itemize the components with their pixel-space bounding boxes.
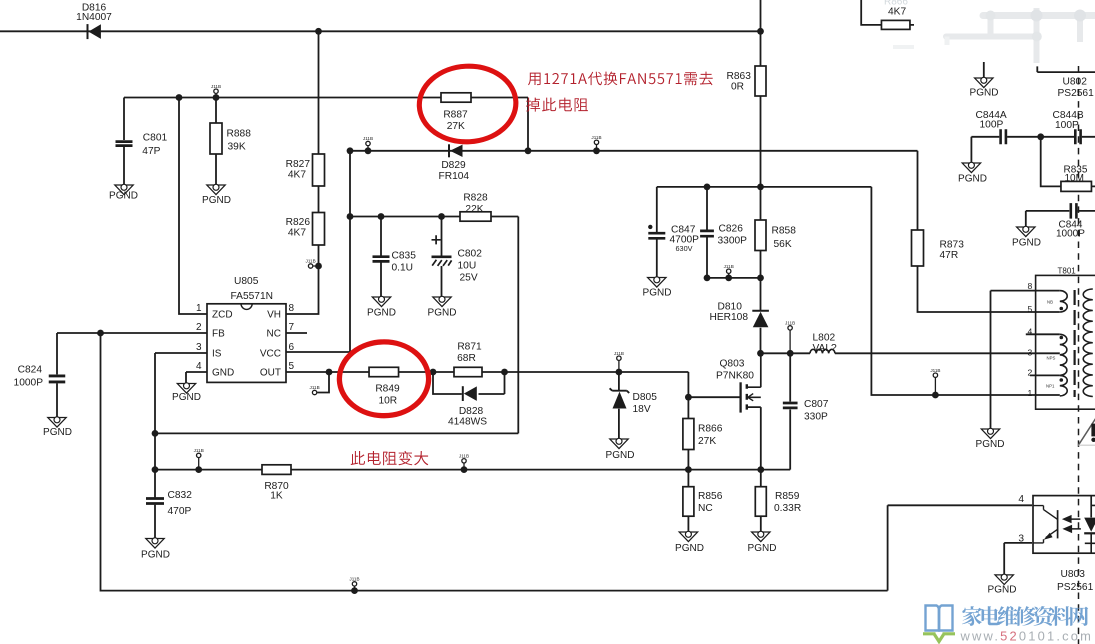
svg-text:PGND: PGND: [606, 450, 635, 461]
svg-text:J11B: J11B: [310, 385, 320, 390]
svg-text:C807: C807: [804, 399, 829, 410]
svg-text:R866: R866: [698, 424, 723, 435]
svg-text:100P: 100P: [1055, 120, 1079, 131]
svg-text:NPS: NPS: [1047, 356, 1056, 361]
svg-text:C826: C826: [719, 224, 744, 235]
svg-text:PGND: PGND: [367, 308, 396, 319]
svg-text:U805: U805: [234, 276, 259, 287]
svg-text:C802: C802: [458, 249, 483, 260]
svg-text:NB: NB: [1047, 300, 1053, 305]
svg-text:5: 5: [1028, 304, 1033, 314]
svg-text:D828: D828: [459, 406, 484, 417]
svg-text:J11B: J11B: [363, 136, 373, 141]
svg-text:47R: 47R: [940, 250, 959, 261]
svg-text:OUT: OUT: [260, 367, 281, 378]
svg-text:PS2561: PS2561: [1057, 582, 1094, 593]
svg-text:PGND: PGND: [172, 392, 201, 403]
svg-text:J11B: J11B: [306, 259, 316, 264]
svg-text:10U: 10U: [458, 261, 477, 272]
svg-text:R863: R863: [727, 71, 752, 82]
svg-text:IS: IS: [212, 348, 222, 359]
svg-text:3: 3: [1028, 348, 1033, 358]
svg-text:5: 5: [289, 361, 295, 372]
svg-text:1000P: 1000P: [14, 378, 44, 389]
svg-text:C832: C832: [168, 490, 193, 501]
svg-text:R828: R828: [463, 193, 488, 204]
svg-text:D805: D805: [633, 392, 658, 403]
svg-text:J11B: J11B: [930, 368, 940, 373]
svg-text:2: 2: [1028, 368, 1033, 378]
svg-text:4: 4: [196, 361, 202, 372]
svg-text:630V: 630V: [676, 244, 693, 253]
svg-text:PGND: PGND: [428, 308, 457, 319]
svg-text:39K: 39K: [228, 141, 246, 152]
svg-text:22K: 22K: [465, 204, 483, 215]
svg-text:C824: C824: [18, 365, 43, 376]
svg-text:J11B: J11B: [459, 453, 469, 458]
svg-text:PGND: PGND: [976, 439, 1005, 450]
svg-text:8: 8: [289, 303, 295, 314]
svg-text:FB: FB: [212, 328, 225, 339]
svg-text:VAL?: VAL?: [813, 343, 837, 354]
svg-text:U802: U802: [1063, 77, 1088, 88]
svg-text:GND: GND: [212, 367, 234, 378]
svg-text:PGND: PGND: [202, 195, 231, 206]
svg-text:J11B: J11B: [614, 351, 624, 356]
svg-text:R858: R858: [772, 226, 797, 237]
svg-text:PS2561: PS2561: [1058, 88, 1095, 99]
svg-text:D810: D810: [718, 301, 743, 312]
svg-text:56K: 56K: [774, 239, 792, 250]
svg-text:4: 4: [1028, 327, 1033, 337]
svg-text:NC: NC: [698, 503, 713, 514]
svg-text:www.520101.com: www.520101.com: [960, 629, 1094, 644]
svg-text:4: 4: [1018, 494, 1024, 505]
svg-text:Q803: Q803: [720, 358, 745, 369]
svg-text:6: 6: [289, 342, 295, 353]
svg-text:1K: 1K: [270, 491, 283, 502]
svg-text:1: 1: [1028, 388, 1033, 398]
svg-text:NP1: NP1: [1046, 384, 1055, 389]
svg-text:PGND: PGND: [141, 549, 170, 560]
svg-text:J11B: J11B: [349, 577, 359, 582]
svg-text:NC: NC: [267, 328, 281, 339]
svg-text:T801: T801: [1058, 267, 1077, 276]
svg-text:FA5571N: FA5571N: [231, 291, 273, 302]
svg-text:470P: 470P: [168, 506, 192, 517]
svg-text:1000P: 1000P: [1056, 229, 1085, 240]
svg-text:1: 1: [196, 303, 202, 314]
svg-text:J11B: J11B: [724, 264, 734, 269]
svg-text:R887: R887: [443, 110, 468, 121]
svg-text:J11B: J11B: [785, 321, 795, 326]
svg-text:J11B: J11B: [591, 135, 601, 140]
svg-text:L802: L802: [813, 333, 836, 344]
svg-text:ZCD: ZCD: [212, 309, 233, 320]
svg-text:27K: 27K: [698, 436, 716, 447]
svg-text:HER108: HER108: [710, 312, 749, 323]
svg-text:PGND: PGND: [643, 288, 672, 299]
svg-text:330P: 330P: [804, 411, 828, 422]
svg-text:0.33R: 0.33R: [774, 503, 801, 514]
svg-text:PGND: PGND: [1012, 237, 1041, 248]
svg-text:4K7: 4K7: [288, 228, 306, 239]
svg-text:R888: R888: [227, 128, 252, 139]
svg-text:18V: 18V: [633, 404, 651, 415]
svg-text:4K7: 4K7: [288, 169, 306, 180]
svg-text:J11B: J11B: [194, 448, 204, 453]
svg-text:PGND: PGND: [675, 543, 704, 554]
svg-text:PGND: PGND: [109, 191, 138, 202]
svg-text:PGND: PGND: [43, 427, 72, 438]
svg-text:R849: R849: [375, 384, 400, 395]
svg-text:0R: 0R: [731, 82, 744, 93]
svg-text:R871: R871: [457, 342, 482, 353]
svg-text:VH: VH: [267, 309, 281, 320]
svg-text:PGND: PGND: [970, 87, 999, 98]
svg-text:P7NK80: P7NK80: [716, 371, 754, 382]
svg-text:100P: 100P: [980, 120, 1004, 131]
svg-text:PGND: PGND: [748, 543, 777, 554]
svg-text:4148WS: 4148WS: [448, 417, 487, 428]
svg-text:C835: C835: [392, 251, 417, 262]
svg-text:PGND: PGND: [958, 173, 987, 184]
svg-text:R856: R856: [698, 491, 723, 502]
svg-text:3: 3: [196, 342, 202, 353]
svg-text:D829: D829: [441, 160, 466, 171]
svg-text:25V: 25V: [460, 273, 478, 284]
svg-text:R859: R859: [775, 491, 800, 502]
svg-text:10R: 10R: [378, 396, 397, 407]
svg-text:2: 2: [196, 322, 202, 333]
svg-text:0.1U: 0.1U: [392, 263, 414, 274]
svg-text:1N4007: 1N4007: [76, 12, 112, 23]
svg-text:8: 8: [1028, 281, 1033, 291]
svg-text:7: 7: [289, 322, 295, 333]
svg-text:PGND: PGND: [988, 584, 1017, 595]
svg-text:3: 3: [1018, 534, 1024, 545]
svg-text:VCC: VCC: [260, 348, 281, 359]
svg-text:27K: 27K: [447, 121, 465, 132]
svg-text:68R: 68R: [457, 353, 476, 364]
svg-text:4K7: 4K7: [888, 7, 906, 18]
svg-text:J11B: J11B: [211, 84, 221, 89]
svg-text:U803: U803: [1061, 569, 1086, 580]
svg-text:10M: 10M: [1065, 173, 1084, 184]
svg-text:FR104: FR104: [439, 171, 470, 182]
svg-text:R826: R826: [286, 217, 311, 228]
svg-text:3300P: 3300P: [718, 236, 748, 247]
svg-text:47P: 47P: [142, 146, 160, 157]
svg-text:C801: C801: [143, 132, 168, 143]
